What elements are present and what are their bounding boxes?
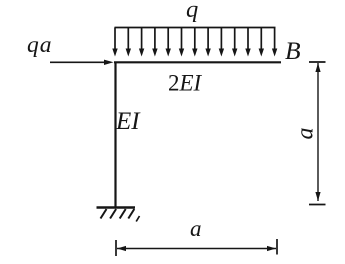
svg-text:EI: EI xyxy=(115,108,141,135)
dimension a (horizontal, bottom) xyxy=(116,239,277,256)
svg-text:q: q xyxy=(186,0,198,23)
svg-text:qa: qa xyxy=(27,32,53,58)
column EI xyxy=(114,62,116,208)
dimension a (vertical, right) xyxy=(309,62,326,205)
beam 2EI xyxy=(114,61,281,63)
force qa arrow xyxy=(50,60,114,65)
fixed support ground xyxy=(97,208,140,222)
svg-text:B: B xyxy=(285,36,301,65)
svg-text:2EI: 2EI xyxy=(168,71,203,96)
svg-text:a: a xyxy=(293,128,319,140)
svg-text:a: a xyxy=(190,216,202,241)
distributed load q arrows xyxy=(112,28,277,57)
distributed load q top line xyxy=(115,27,276,29)
